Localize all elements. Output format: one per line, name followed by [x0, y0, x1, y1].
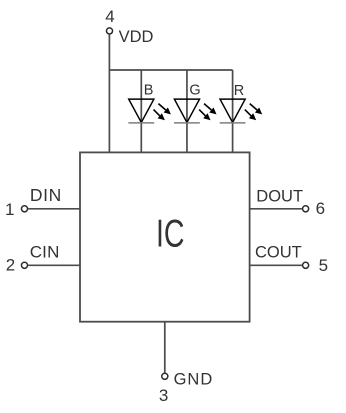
svg-text:1: 1: [5, 200, 14, 219]
svg-text:R: R: [234, 83, 244, 99]
svg-text:IC: IC: [156, 212, 185, 255]
svg-text:COUT: COUT: [255, 243, 302, 261]
svg-text:DOUT: DOUT: [256, 187, 303, 205]
svg-text:G: G: [189, 83, 200, 99]
svg-text:DIN: DIN: [30, 185, 62, 205]
svg-text:6: 6: [316, 199, 325, 218]
svg-text:2: 2: [6, 256, 15, 275]
svg-text:CIN: CIN: [30, 242, 60, 261]
svg-text:4: 4: [105, 7, 114, 26]
svg-text:B: B: [144, 83, 154, 99]
svg-text:VDD: VDD: [119, 28, 154, 46]
svg-text:5: 5: [319, 256, 328, 275]
svg-text:3: 3: [159, 386, 168, 405]
svg-text:GND: GND: [174, 371, 214, 389]
